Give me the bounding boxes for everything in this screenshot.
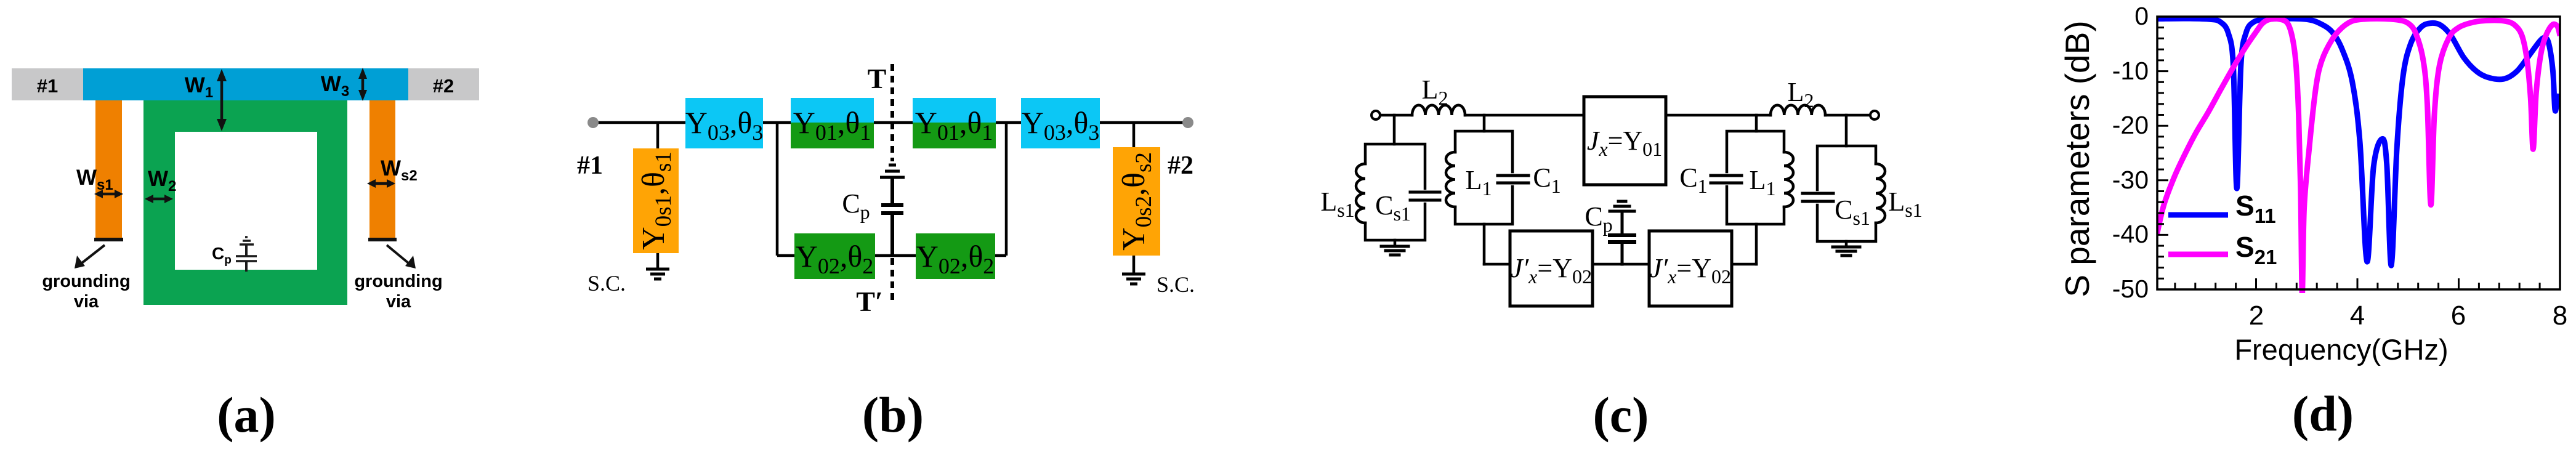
- wire: L2 to Jx box: [1465, 114, 1584, 117]
- wire: main to L1 tank: [1483, 115, 1486, 131]
- wire: right L1 tank down: [1755, 224, 1758, 264]
- svg-text:T: T: [868, 63, 887, 94]
- svg-text:(d): (d): [2292, 385, 2354, 442]
- legend S21 line: [2168, 252, 2228, 257]
- axis ticks: [2157, 17, 2560, 289]
- svg-text:(a): (a): [217, 387, 276, 443]
- svg-text:#2: #2: [1168, 151, 1193, 180]
- left ground S.C.: [646, 269, 669, 279]
- panel (a): microstrip layout: [12, 68, 479, 443]
- svg-text:grounding: grounding: [354, 272, 442, 291]
- J-inverter Jx=Y01 box: [1584, 97, 1666, 185]
- right terminal: [1870, 111, 1879, 119]
- stub admittance Y0s2 box: [1113, 147, 1160, 256]
- tank C1 parallel L1 (right): [1711, 131, 1793, 224]
- port #1 grey pad: [12, 68, 83, 100]
- inductor L2 left: [1412, 105, 1465, 115]
- svg-text:0: 0: [2134, 2, 2149, 30]
- inverter J'x=Y02 left box: [1510, 231, 1593, 306]
- S21 curve: [2157, 18, 2560, 295]
- svg-text:(c): (c): [1593, 387, 1649, 443]
- Cp capacitor (b): [880, 165, 905, 256]
- wire: down to Ls1/Cs1 tank: [1393, 115, 1396, 144]
- left terminal: [1371, 111, 1380, 119]
- svg-text:S parameters (dB): S parameters (dB): [2058, 20, 2096, 297]
- stub admittance Y0s1 box: [633, 148, 679, 253]
- W2 dimension arrow: [145, 195, 173, 203]
- lower branch wire: [777, 254, 1006, 257]
- wire: L2 right to terminal: [1825, 114, 1875, 117]
- svg-text:via: via: [386, 292, 411, 312]
- Cs1 right plate bottom: [1803, 200, 1833, 203]
- svg-text:#1: #1: [37, 75, 58, 97]
- Cp capacitor (c): [1610, 201, 1634, 264]
- W3 dimension arrow: [358, 68, 367, 101]
- svg-text:T′: T′: [856, 286, 883, 317]
- svg-text:#1: #1: [577, 151, 603, 180]
- svg-text:-30: -30: [2112, 166, 2149, 194]
- wire: main to right L1 tank: [1755, 115, 1758, 131]
- right ground S.C.: [1122, 274, 1145, 284]
- port #2 grey pad: [408, 68, 479, 100]
- svg-text:#2: #2: [433, 75, 454, 97]
- panel (c): lumped element circuit: [1320, 75, 1922, 443]
- port 1 terminal dot: [587, 117, 599, 128]
- C1 plate top: [1498, 174, 1528, 177]
- right branch vertical wire: [1005, 123, 1008, 256]
- svg-text:S.C.: S.C.: [587, 271, 626, 296]
- svg-text:-10: -10: [2112, 57, 2149, 85]
- main wire: [593, 121, 1188, 124]
- line Y03 theta3 left box: [685, 98, 763, 148]
- inductor L2 right: [1770, 105, 1825, 115]
- wire: right tank to ground: [1845, 241, 1848, 247]
- left stub wire: [656, 123, 660, 269]
- right grounding-via arrow: [387, 245, 416, 268]
- left via black bar: [94, 238, 123, 241]
- right stub wire: [1133, 123, 1136, 274]
- line Y03 theta3 right box: [1021, 98, 1100, 148]
- inverter J'x=Y02 right box: [1649, 231, 1732, 306]
- left grounding-via arrow: [75, 245, 105, 268]
- wire: to J'x box: [1484, 263, 1510, 266]
- svg-text:-50: -50: [2112, 275, 2149, 303]
- svg-text:4: 4: [2350, 301, 2365, 331]
- svg-text:2: 2: [2249, 301, 2264, 331]
- wire: between J' boxes: [1593, 263, 1649, 266]
- green ring resonator: [143, 100, 347, 305]
- ground right: [1833, 247, 1860, 256]
- panel (b): transmission-line schematic: [577, 63, 1195, 443]
- svg-text:(b): (b): [862, 387, 924, 443]
- wire: left terminal to L2: [1376, 114, 1412, 117]
- port 2 terminal dot: [1182, 117, 1193, 128]
- left branch vertical wire: [776, 123, 779, 256]
- Cp capacitor to virtual ground (a): [236, 237, 257, 272]
- W1 dimension arrow: [217, 69, 227, 131]
- line Y02 theta2 left box: [794, 233, 875, 279]
- wire: Jx box to L2 right: [1666, 114, 1770, 117]
- svg-text:6: 6: [2451, 301, 2466, 331]
- svg-text:-20: -20: [2112, 111, 2149, 139]
- C1 right plate bottom: [1711, 182, 1742, 185]
- svg-text:via: via: [74, 292, 99, 312]
- ground left: [1381, 246, 1408, 255]
- wire: L1 tank down: [1483, 224, 1486, 264]
- svg-text:8: 8: [2553, 301, 2567, 331]
- wire: down to right Cs1 tank: [1845, 115, 1848, 146]
- top microstrip line W1: [83, 68, 408, 100]
- line Y01 theta1 left box: [791, 98, 874, 123]
- panel (d): S-parameter graph: [2058, 2, 2567, 442]
- line Y02 theta2 right box: [916, 233, 995, 279]
- tank Cs1 parallel Ls1 (right): [1803, 146, 1885, 241]
- right shorted stub strip: [369, 100, 395, 240]
- symmetry line T-T prime lower: [890, 258, 894, 301]
- plot frame: [2157, 17, 2560, 289]
- Cs1 plate bottom: [1410, 199, 1440, 202]
- wire: tank to ground: [1394, 240, 1397, 246]
- Ws2 dimension arrow: [367, 179, 395, 188]
- svg-text:-40: -40: [2112, 220, 2149, 248]
- svg-text:grounding: grounding: [42, 272, 130, 291]
- left shorted stub strip: [95, 100, 122, 240]
- svg-text:S.C.: S.C.: [1157, 272, 1195, 297]
- Cs1 right plate top: [1803, 192, 1833, 195]
- right via black bar: [368, 238, 397, 241]
- svg-text:Frequency(GHz): Frequency(GHz): [2234, 333, 2448, 366]
- legend S11 line: [2168, 212, 2228, 218]
- C1 right plate top: [1711, 174, 1742, 177]
- symmetry line T-T prime upper: [890, 64, 894, 161]
- line Y01 theta1 right box: [913, 98, 996, 123]
- C1 plate bottom: [1498, 182, 1528, 185]
- Cs1 plate top: [1410, 191, 1440, 194]
- tank Ls1 parallel Cs1 (left): [1356, 144, 1440, 240]
- wire: to right J' box: [1732, 263, 1756, 266]
- S11 curve: [2157, 18, 2560, 265]
- Ws1 dimension arrow: [94, 190, 123, 198]
- tank L1 parallel C1 (left): [1446, 131, 1528, 224]
